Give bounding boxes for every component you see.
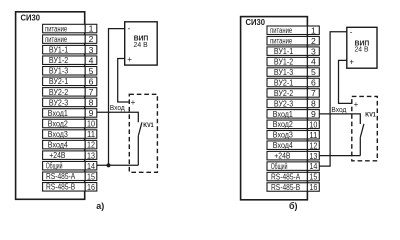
terminal 2 питание — [267, 36, 319, 46]
svg-text:Вход4: Вход4 — [48, 141, 69, 150]
device outline СИ30 (panel b) — [241, 17, 308, 200]
svg-text:10: 10 — [309, 119, 317, 129]
wire ВИП minus to Общий terminal 14 — [109, 29, 125, 166]
svg-text:9: 9 — [89, 108, 94, 118]
svg-text:ВУ2-3: ВУ2-3 — [274, 99, 294, 108]
terminal 6 ВУ2-1 — [267, 78, 319, 88]
terminal 14 Общий — [43, 161, 97, 171]
svg-text:12: 12 — [309, 140, 317, 150]
svg-text:RS-485-A: RS-485-A — [46, 172, 76, 181]
terminal 9 Вход1 — [267, 109, 319, 119]
device outline СИ30 (panel a) — [16, 12, 85, 200]
svg-text:4: 4 — [89, 55, 94, 65]
terminal 8 ВУ2-3 — [267, 99, 319, 109]
terminal 5 ВУ1-3 — [43, 66, 97, 76]
svg-text:СИ30: СИ30 — [21, 12, 41, 22]
svg-text:3: 3 — [311, 46, 316, 56]
switch contact KV1 blade — [138, 122, 142, 135]
svg-text:+: + — [131, 98, 136, 107]
svg-text:+: + — [349, 57, 354, 66]
svg-text:+24В: +24В — [49, 151, 65, 160]
svg-text:11: 11 — [309, 130, 317, 140]
svg-text:ВУ2-1: ВУ2-1 — [274, 78, 294, 87]
svg-text:ВУ2-2: ВУ2-2 — [274, 89, 294, 98]
svg-text:7: 7 — [89, 87, 94, 97]
svg-text:а): а) — [96, 201, 104, 211]
terminal 13 +24В — [43, 150, 97, 160]
svg-text:6: 6 — [311, 78, 316, 88]
svg-text:13: 13 — [87, 150, 95, 160]
svg-text:15: 15 — [309, 172, 317, 182]
terminal 11 Вход3 — [43, 129, 97, 139]
svg-text:ВУ1-2: ВУ1-2 — [274, 58, 294, 67]
svg-text:6: 6 — [89, 76, 94, 86]
svg-text:ВУ1-1: ВУ1-1 — [49, 46, 69, 55]
terminal 6 ВУ2-1 — [43, 76, 97, 86]
svg-text:RS-485-B: RS-485-B — [46, 183, 75, 192]
svg-text:Общий: Общий — [46, 162, 63, 171]
terminal 3 ВУ1-1 — [43, 45, 97, 55]
svg-text:питание: питание — [270, 37, 292, 46]
terminal 5 ВУ1-3 — [267, 67, 319, 77]
terminal 3 ВУ1-1 — [267, 46, 319, 56]
svg-text:-: - — [128, 24, 131, 33]
svg-text:Вход2: Вход2 — [48, 119, 69, 128]
svg-text:2: 2 — [89, 34, 94, 44]
svg-text:ВУ1-2: ВУ1-2 — [49, 56, 69, 65]
wire ВИП plus to switch enclosure input — [118, 59, 130, 103]
svg-text:8: 8 — [311, 99, 316, 109]
terminal 10 Вход2 — [43, 119, 97, 129]
svg-text:питание: питание — [45, 24, 67, 33]
terminal 2 питание — [43, 34, 97, 44]
terminal 12 Вход4 — [43, 140, 97, 150]
terminal 15 RS-485-A — [43, 171, 97, 181]
svg-text:7: 7 — [311, 88, 316, 98]
terminal 1 питание — [43, 24, 97, 34]
junction dot (ВИП minus / Общий) — [106, 163, 110, 167]
svg-text:+: + — [127, 55, 132, 64]
svg-text:24 В: 24 В — [134, 42, 148, 49]
svg-text:+24В: +24В — [274, 152, 290, 161]
terminal 10 Вход2 — [267, 119, 319, 129]
svg-text:Вход: Вход — [110, 103, 126, 112]
contact KV1 lower lead to Общий wire — [137, 136, 139, 165]
svg-text:RS-485-B: RS-485-B — [271, 183, 300, 192]
contact KV1 lower lead to +24В wire — [359, 137, 361, 155]
svg-text:-: - — [350, 28, 353, 37]
svg-text:СИ30: СИ30 — [246, 17, 266, 27]
svg-text:ВУ1-1: ВУ1-1 — [274, 47, 294, 56]
svg-text:ВУ2-1: ВУ2-1 — [49, 77, 69, 86]
terminal 7 ВУ2-2 — [267, 88, 319, 98]
terminal 9 Вход1 — [43, 108, 97, 118]
svg-text:ВУ1-3: ВУ1-3 — [274, 68, 294, 77]
terminal 13 +24В — [267, 151, 319, 161]
svg-text:12: 12 — [87, 140, 95, 150]
wire ВИП minus to Общий terminal 14 — [319, 32, 347, 166]
svg-text:2: 2 — [311, 36, 316, 46]
wire Общий terminal 14 to contact — [97, 164, 139, 166]
svg-text:14: 14 — [309, 161, 317, 171]
terminal 1 питание — [267, 25, 319, 35]
wire +24В terminal 13 to contact — [319, 155, 360, 157]
svg-text:16: 16 — [309, 182, 317, 192]
power supply U1 ВИП 24 В — [347, 27, 377, 68]
terminal 4 ВУ1-2 — [267, 57, 319, 67]
terminal 4 ВУ1-2 — [43, 55, 97, 65]
svg-text:11: 11 — [87, 129, 95, 139]
terminal 14 Общий — [267, 161, 319, 171]
svg-text:ВУ2-2: ВУ2-2 — [49, 88, 69, 97]
svg-text:Вход3: Вход3 — [273, 131, 294, 140]
svg-text:1: 1 — [89, 24, 94, 34]
svg-text:KV1: KV1 — [365, 111, 376, 118]
terminal 16 RS-485-B — [267, 182, 319, 192]
dashed enclosure (switching device) — [129, 94, 157, 172]
terminal 15 RS-485-A — [267, 172, 319, 182]
svg-text:Вход2: Вход2 — [273, 120, 294, 129]
wire ВИП plus to switch enclosure input — [339, 60, 353, 103]
svg-text:5: 5 — [311, 67, 316, 77]
svg-text:4: 4 — [311, 57, 316, 67]
svg-text:питание: питание — [270, 26, 292, 35]
wire Вход1 terminal 9 to contact KV1 — [319, 114, 360, 124]
svg-text:Вход3: Вход3 — [48, 130, 69, 139]
svg-text:ВУ2-3: ВУ2-3 — [49, 98, 69, 107]
svg-text:RS-485-A: RS-485-A — [271, 172, 301, 181]
svg-text:б): б) — [289, 201, 298, 211]
terminal 11 Вход3 — [267, 130, 319, 140]
terminal 12 Вход4 — [267, 140, 319, 150]
svg-text:питание: питание — [45, 35, 67, 44]
svg-text:Вход1: Вход1 — [273, 110, 294, 119]
svg-text:24 В: 24 В — [354, 47, 368, 54]
svg-text:15: 15 — [87, 171, 95, 181]
svg-text:5: 5 — [89, 66, 94, 76]
svg-text:9: 9 — [311, 109, 316, 119]
svg-text:+: + — [354, 100, 359, 109]
terminal 7 ВУ2-2 — [43, 87, 97, 97]
svg-text:ВУ1-3: ВУ1-3 — [49, 67, 69, 76]
svg-text:Вход4: Вход4 — [273, 141, 294, 150]
svg-text:Вход: Вход — [331, 105, 347, 114]
svg-text:16: 16 — [87, 182, 95, 192]
svg-text:14: 14 — [87, 161, 95, 171]
wire Вход1 terminal 9 to contact KV1 — [97, 112, 139, 122]
terminal 16 RS-485-B — [43, 182, 97, 192]
svg-text:10: 10 — [87, 119, 95, 129]
terminal 8 ВУ2-3 — [43, 98, 97, 108]
svg-text:13: 13 — [309, 151, 317, 161]
svg-text:1: 1 — [311, 25, 316, 35]
svg-text:KV1: KV1 — [143, 122, 154, 129]
svg-text:3: 3 — [89, 45, 94, 55]
svg-text:Вход1: Вход1 — [48, 109, 69, 118]
svg-text:8: 8 — [89, 98, 94, 108]
switch contact KV1 blade — [360, 124, 364, 137]
svg-text:Общий: Общий — [271, 162, 288, 171]
power supply U1 ВИП 24 В — [125, 22, 158, 65]
dashed enclosure (switching device) — [352, 96, 378, 160]
